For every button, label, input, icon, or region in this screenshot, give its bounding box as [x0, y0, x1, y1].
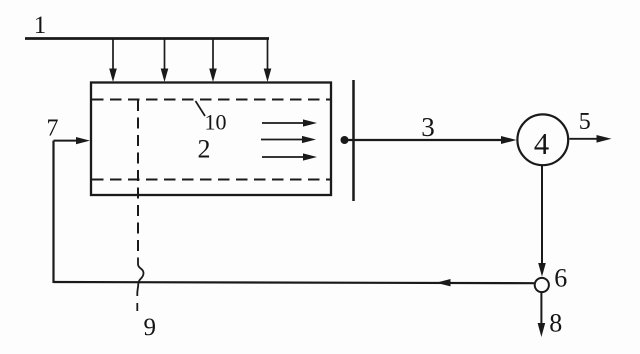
wire: drop from unit 4 to junction 6 [541, 166, 543, 265]
wire: recycle return line (junction 6 to left riser) [54, 282, 535, 283]
svg-text:6: 6 [554, 264, 567, 293]
flow arrow a (inside vessel) [262, 122, 305, 124]
dashed level line bottom [92, 179, 330, 181]
wire: feed drop 3 [212, 39, 214, 72]
unit 4 circle [517, 114, 568, 165]
flow arrow c (inside vessel) [262, 156, 305, 158]
wire: left riser [52, 141, 54, 283]
svg-text:2: 2 [198, 135, 211, 164]
svg-text:5: 5 [579, 109, 591, 135]
wire: feed drop 2 [164, 39, 166, 72]
wire: stream 3 [345, 139, 504, 141]
vessel 2 rectangle [91, 83, 331, 196]
dashed level line top [92, 99, 330, 101]
dashed partition line 9 (vertical) [137, 100, 139, 258]
flow arrow b (inside vessel) [261, 139, 304, 141]
svg-text:9: 9 [144, 314, 157, 341]
break squiggle on line 9 [137, 258, 143, 296]
baffle / wall line [352, 80, 355, 201]
svg-text:4: 4 [534, 127, 549, 161]
wire: inlet stream 7 [54, 140, 79, 142]
wire: feed header line 1 [25, 37, 269, 40]
svg-text:8: 8 [549, 309, 562, 338]
wire: feed drop 1 [112, 39, 114, 72]
node dot on stream 3 [341, 136, 349, 144]
wire: stream 8 [540, 293, 542, 325]
svg-text:3: 3 [421, 112, 435, 142]
wire: stream 5 [569, 138, 598, 140]
svg-text:1: 1 [34, 12, 47, 39]
svg-text:10: 10 [205, 110, 227, 135]
leader line for label 10 [196, 101, 206, 116]
junction 6 circle [535, 278, 549, 292]
wire: feed drop 4 [267, 39, 269, 72]
dashed line 9 tail [136, 303, 138, 311]
arrowhead on recycle line [436, 279, 451, 286]
svg-text:7: 7 [47, 116, 59, 142]
